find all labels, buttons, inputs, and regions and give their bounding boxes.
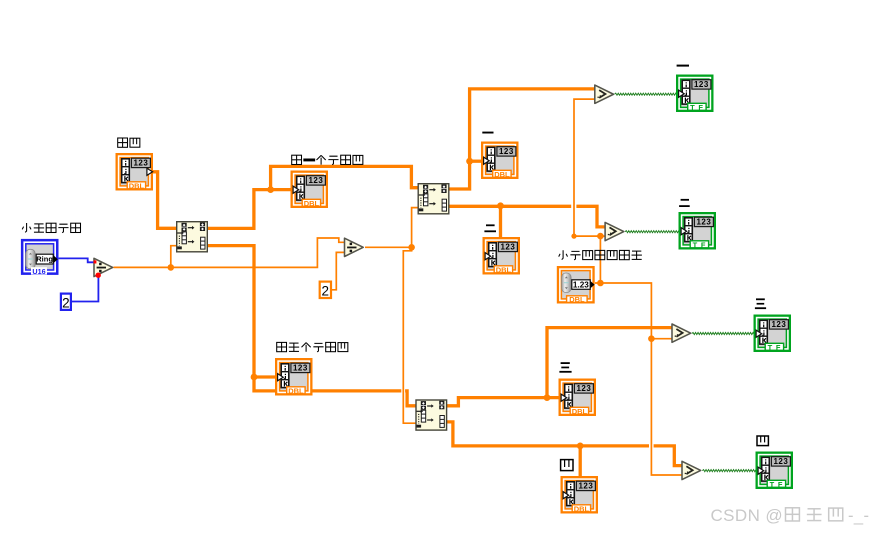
array indicator terminal 二 (DBL) <box>484 238 519 274</box>
svg-text:CSDN @: CSDN @ <box>711 506 784 525</box>
crossing gap where scalar wire tunnels <box>401 389 405 394</box>
wire: constant 2 (DBL) to divide2 bottom input <box>332 252 344 289</box>
svg-text:-_-: -_- <box>848 507 869 525</box>
array indicator terminal 一 (DBL) <box>482 143 517 179</box>
compare4 greater? node <box>682 461 701 479</box>
wire: divide1 output to divide2, with branch to Split1 index input <box>114 238 345 267</box>
compare1 greater? node <box>595 85 614 103</box>
watermark CSDN @学生哥-_- <box>711 506 870 525</box>
svg-text:U16: U16 <box>32 267 45 276</box>
array indicator terminal 第一个子数组 (DBL) <box>292 172 327 208</box>
label 四 (TF) <box>757 436 768 446</box>
wire: IndexNode1 bottom output to compare2 top input, branch down to 二 DBL <box>449 206 605 227</box>
label 数组 <box>118 138 140 147</box>
wire: Split1 top output to IndexNode1, branch to 第一个子数组 <box>208 166 418 228</box>
array indicator terminal 第二个子数组 (DBL) <box>276 359 311 395</box>
junction on divide1 output <box>168 264 175 271</box>
boolean wire compare3 to 三 TF <box>692 332 755 334</box>
label 三 (DBL) <box>559 362 571 372</box>
label 四 (DBL) <box>561 460 573 471</box>
wire: Split1 bottom output down to IndexNode2, branch to 第二个子数组 <box>208 246 416 406</box>
wire: constant 2 to divide1 bottom input (blue) <box>72 276 98 301</box>
numeric constant 2 (blue) <box>61 294 71 311</box>
compare2 greater? node <box>605 222 624 240</box>
wire: 小于此数则异常 control feeding all four compare bottom inputs <box>595 283 682 475</box>
Split 1D Array node 1 <box>177 222 208 252</box>
svg-text:DBL: DBL <box>569 295 585 304</box>
numeric control terminal 小于此数则异常 (DBL) <box>558 267 595 304</box>
label 第一个子数组 <box>292 155 363 165</box>
label 一 (DBL) <box>482 132 493 134</box>
svg-text:2: 2 <box>62 296 70 311</box>
Split 1D Array node 3 (IndexNode2) <box>416 400 447 430</box>
wire: Ring control to divide1 top input (blue) <box>59 258 94 262</box>
svg-text:2: 2 <box>322 284 330 299</box>
boolean wire compare2 to 二 TF <box>625 231 680 233</box>
wire: 数组 array to Split1 input <box>152 172 176 229</box>
compare3 greater? node <box>672 324 691 342</box>
label 小于此数则异常 <box>559 250 642 260</box>
boolean array indicator terminal 三 (TF) <box>755 316 790 352</box>
wire: IndexNode2 bottom output to compare4 top input, branch down to 四 DBL <box>447 422 682 466</box>
Split 1D Array node 2 (IndexNode1) <box>418 184 449 214</box>
boolean array indicator terminal 一 (TF) <box>677 76 712 112</box>
wire: IndexNode1 top output up to compare1, branch to 一 DBL <box>449 89 595 189</box>
label 采集通道数 <box>22 223 80 233</box>
boolean array indicator terminal 四 (TF) <box>757 453 792 489</box>
label 一 (TF) <box>677 65 689 67</box>
array indicator terminal 四 (DBL) <box>562 477 597 513</box>
array indicator terminal 三 (DBL) <box>560 380 595 416</box>
label 第二个子数组 <box>277 342 348 352</box>
boolean wire compare4 to 四 TF <box>702 470 757 472</box>
wire: divide2 output junction, up to IndexNode1 index-in, down to IndexNode2 index-in <box>365 208 418 424</box>
label 二 (TF) <box>679 199 690 207</box>
wire: IndexNode2 top output to 三 DBL and up to compare3 top input <box>447 398 559 406</box>
array indicator terminal 数组 (output) <box>117 154 153 190</box>
divide1 node with coercion dots <box>94 258 113 278</box>
svg-text:Ring: Ring <box>36 255 53 264</box>
boolean wire compare1 to 一 TF <box>615 93 678 95</box>
divide2 node <box>345 238 364 256</box>
Ring control terminal 采集通道数 (U16) <box>22 240 58 276</box>
numeric constant 2 (DBL orange) <box>320 282 331 299</box>
svg-text:1.23: 1.23 <box>573 281 589 290</box>
label 二 (DBL) <box>484 224 496 232</box>
label 三 (TF) <box>755 298 766 309</box>
boolean array indicator terminal 二 (TF) <box>680 213 715 249</box>
